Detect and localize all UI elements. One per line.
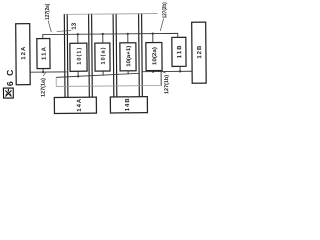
- wire riser left: [55, 77, 57, 86]
- svg-text:13: 13: [71, 22, 78, 30]
- block 14B: [110, 97, 147, 113]
- block 10(2a): [146, 43, 162, 71]
- svg-text:127(1b): 127(1b): [164, 75, 170, 94]
- junction dot: [42, 71, 44, 73]
- wire stub bottom 10(a+1): [127, 71, 129, 75]
- wire stub top 10(a): [102, 34, 104, 43]
- wire stub bottom 10(2a): [152, 70, 154, 73]
- block 14A: [54, 97, 96, 113]
- figure label 図6C kanji zu box: [3, 88, 13, 98]
- svg-text:127(2b): 127(2b): [162, 2, 168, 18]
- block 12A: [16, 24, 31, 85]
- svg-text:12B: 12B: [197, 45, 203, 59]
- leader 127(1b): [163, 72, 166, 73]
- wire riser right: [160, 72, 162, 86]
- svg-text:6C: 6C: [5, 70, 15, 87]
- block 12B: [192, 22, 207, 83]
- junction dot: [77, 75, 79, 77]
- wire pair 127 sense lines pair3: [113, 13, 117, 97]
- leader 127(2a): [48, 20, 51, 32]
- svg-text:10(1): 10(1): [77, 48, 83, 65]
- svg-text:12A: 12A: [21, 46, 27, 60]
- block 10(1): [70, 43, 87, 71]
- svg-text:11A: 11A: [42, 46, 48, 60]
- block 11B: [172, 37, 186, 66]
- junction dot: [152, 70, 154, 72]
- block 11A: [37, 38, 50, 68]
- leader 127(2b): [160, 19, 164, 32]
- svg-text:127(1a): 127(1a): [41, 78, 47, 97]
- svg-text:11B: 11B: [177, 45, 183, 59]
- wire stub top 10(a+1): [127, 34, 129, 43]
- wire 127(1b) right bottom wire: [142, 70, 192, 72]
- junction dot: [152, 32, 154, 34]
- wire stub bottom 10(1): [77, 71, 79, 77]
- wire stub bottom 11A: [42, 69, 44, 72]
- svg-text:10(a): 10(a): [101, 47, 107, 64]
- svg-text:10(2a): 10(2a): [152, 47, 158, 65]
- block 10(a): [95, 43, 110, 71]
- wire top link line: [64, 13, 157, 16]
- wire pair 127 sense lines pair4: [139, 13, 143, 97]
- svg-text:14A: 14A: [77, 98, 83, 112]
- svg-text:10(a+1): 10(a+1): [126, 46, 132, 67]
- svg-text:127(2a): 127(2a): [45, 4, 51, 20]
- wire stub bottom 11B: [179, 66, 181, 71]
- wire 127(1a) left bottom wire: [30, 71, 66, 73]
- wire bottom return line: [56, 85, 161, 88]
- junction dot: [102, 33, 104, 35]
- junction dot: [77, 33, 79, 35]
- wire stub top 10(1): [77, 34, 79, 43]
- junction dot: [179, 70, 181, 72]
- leader 127(1a): [43, 73, 46, 77]
- svg-text:14B: 14B: [125, 98, 131, 112]
- wire stub top 10(2a): [152, 34, 154, 43]
- wire pair 127 sense lines pair2: [89, 14, 93, 98]
- block 10(a+1): [120, 43, 136, 71]
- junction dot: [127, 33, 129, 35]
- wire pair 127 sense lines pair1: [64, 14, 68, 98]
- wire stub bottom 10(a): [102, 71, 104, 76]
- wire mid bottom bus: [56, 73, 139, 77]
- leader 13: [57, 30, 72, 33]
- wire 13 top bus: [43, 33, 178, 38]
